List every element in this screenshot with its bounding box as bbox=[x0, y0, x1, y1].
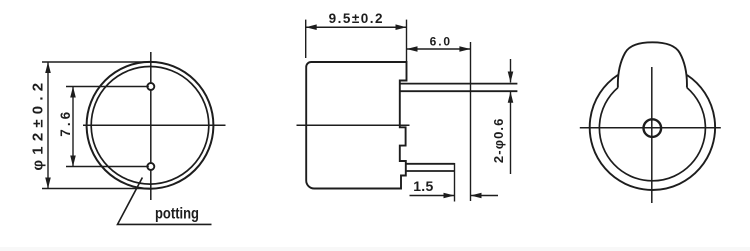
arrow 1.5 right-pointing bbox=[444, 193, 455, 199]
inner circle bbox=[91, 67, 209, 185]
arrow 9.5 right bbox=[396, 24, 407, 30]
ext line bottom pin end bbox=[454, 163, 456, 202]
svg-text:φ12±0.2: φ12±0.2 bbox=[30, 78, 47, 171]
pin hole top bbox=[147, 83, 154, 90]
arrow phi12 bottom bbox=[45, 178, 51, 189]
pin hole bottom bbox=[147, 163, 154, 170]
bottom pin lines bbox=[406, 163, 455, 165]
arrow 6.0 left bbox=[407, 46, 418, 52]
arrow 7.6 top bbox=[70, 87, 76, 98]
svg-text:2-φ0.6: 2-φ0.6 bbox=[491, 118, 506, 164]
arrow phi12 top bbox=[45, 62, 51, 73]
vertical center line bbox=[651, 67, 653, 203]
svg-text:potting: potting bbox=[155, 206, 199, 223]
potting leader line bbox=[118, 178, 212, 225]
horizontal center line bbox=[580, 127, 721, 129]
body outline bbox=[306, 62, 406, 189]
top pin lines bbox=[400, 83, 518, 85]
dimension line 7.6 bbox=[72, 87, 74, 167]
arrow 1.5 left-pointing bbox=[471, 193, 482, 199]
dim line 9.5 bbox=[306, 26, 407, 28]
dome outline bbox=[618, 42, 687, 87]
ext line right 6.0/1.5 (long) bbox=[470, 42, 472, 201]
svg-text:1.5: 1.5 bbox=[413, 178, 433, 194]
dimension line phi12 bbox=[47, 62, 49, 189]
arrow 9.5 left bbox=[306, 24, 317, 30]
arrow 6.0 right bbox=[459, 46, 470, 52]
horizontal center line bbox=[83, 124, 226, 126]
arrow phi0.6 up bbox=[508, 92, 514, 103]
vertical center line bbox=[150, 52, 152, 200]
phi0.6 dim vertical line upper bbox=[510, 59, 512, 83]
dim line 6.0 bbox=[407, 48, 471, 50]
svg-text:9.5±0.2: 9.5±0.2 bbox=[329, 11, 384, 26]
outer circle bbox=[87, 62, 214, 189]
phi0.6 dim vertical line lower bbox=[510, 92, 512, 174]
extension line top (phi12) bbox=[42, 61, 150, 63]
extension line top hole (7.6) bbox=[66, 86, 149, 88]
center line bbox=[297, 124, 410, 126]
svg-text:7.6: 7.6 bbox=[58, 109, 73, 137]
1.5 dim line left part bbox=[410, 195, 455, 197]
svg-text:6.0: 6.0 bbox=[430, 34, 452, 48]
extension line bottom hole (7.6) bbox=[66, 166, 149, 168]
arrow 7.6 bottom bbox=[70, 156, 76, 167]
ext line left 9.5 bbox=[305, 20, 307, 58]
inner circle arc (clipped by dome) bbox=[599, 88, 705, 181]
outer circle arc (clipped by dome) bbox=[590, 75, 715, 190]
ext line right 9.5/6.0 bbox=[406, 20, 408, 62]
arrow phi0.6 down bbox=[508, 72, 514, 83]
extension line bottom (phi12) bbox=[42, 188, 150, 190]
1.5 dim line right part bbox=[471, 195, 499, 197]
center hole bbox=[644, 119, 662, 137]
